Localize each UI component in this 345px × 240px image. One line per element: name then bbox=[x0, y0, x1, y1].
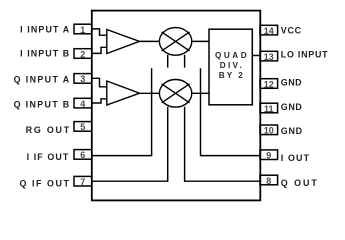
svg-text:QUAD: QUAD bbox=[215, 51, 247, 60]
svg-text:12: 12 bbox=[264, 79, 274, 89]
svg-text:LO INPUT: LO INPUT bbox=[281, 50, 328, 60]
svg-text:BY 2: BY 2 bbox=[219, 71, 243, 80]
svg-text:GND: GND bbox=[281, 126, 303, 136]
svg-text:RG OUT: RG OUT bbox=[26, 125, 70, 135]
svg-text:I OUT: I OUT bbox=[281, 153, 310, 163]
svg-text:GND: GND bbox=[281, 78, 302, 88]
svg-text:11: 11 bbox=[264, 104, 274, 114]
svg-text:I IF OUT: I IF OUT bbox=[27, 152, 69, 162]
svg-text:6: 6 bbox=[80, 150, 85, 160]
svg-text:10: 10 bbox=[264, 126, 274, 136]
svg-text:GND: GND bbox=[281, 102, 303, 112]
svg-text:Q INPUT B: Q INPUT B bbox=[14, 99, 70, 109]
svg-text:8: 8 bbox=[266, 176, 271, 186]
svg-text:DIV.: DIV. bbox=[220, 61, 242, 70]
svg-text:14: 14 bbox=[264, 26, 274, 36]
svg-text:9: 9 bbox=[266, 151, 271, 161]
svg-text:I INPUT B: I INPUT B bbox=[20, 49, 69, 59]
svg-text:4: 4 bbox=[80, 99, 85, 109]
svg-text:Q IF OUT: Q IF OUT bbox=[20, 178, 70, 188]
svg-text:5: 5 bbox=[80, 122, 85, 132]
svg-text:VCC: VCC bbox=[281, 26, 302, 36]
svg-text:2: 2 bbox=[80, 49, 85, 59]
svg-text:3: 3 bbox=[80, 74, 85, 84]
svg-text:Q OUT: Q OUT bbox=[281, 178, 318, 188]
svg-text:I INPUT A: I INPUT A bbox=[20, 25, 70, 35]
svg-text:13: 13 bbox=[264, 52, 274, 62]
svg-text:1: 1 bbox=[80, 25, 85, 35]
svg-text:7: 7 bbox=[80, 177, 85, 187]
svg-text:Q INPUT A: Q INPUT A bbox=[14, 75, 70, 85]
